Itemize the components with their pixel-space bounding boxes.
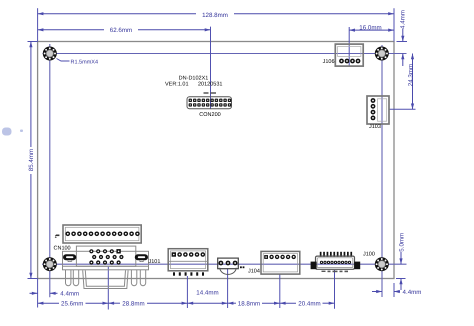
dimension 4.4mm bottom-right line — [372, 291, 382, 293]
svg-text:J100: J100 — [363, 251, 375, 257]
svg-text:CON200: CON200 — [199, 112, 220, 118]
centerline left vertical — [49, 44, 51, 297]
extension line top edge right tick — [397, 41, 408, 43]
svg-text:16.0mm: 16.0mm — [359, 24, 381, 31]
arrows 5.0mm — [399, 258, 402, 264]
svg-text:4.4mm: 4.4mm — [60, 290, 79, 297]
power jack 3-pin — [218, 258, 239, 274]
VGA D-shell — [83, 270, 128, 288]
extension line jack center bottom — [227, 269, 229, 308]
arrows 85.4mm — [29, 42, 32, 48]
connector CON200 — [187, 97, 232, 109]
dimension 4.4mm top-right line — [402, 29, 404, 42]
arrows 14.4mm — [187, 302, 193, 305]
extension line bottom edge right tick — [396, 278, 406, 280]
connector J106 — [335, 44, 363, 66]
dimension 18.8mm line — [228, 302, 236, 304]
dimension 28.8mm line — [108, 302, 120, 304]
extension line J106 center — [348, 27, 350, 66]
arrows 16.0mm — [349, 29, 355, 32]
dimension 128.8mm line — [38, 13, 196, 15]
extension line CON200 center — [210, 27, 212, 109]
dimension 25.6mm line — [38, 302, 59, 304]
dimension texts — [27, 10, 421, 307]
leader line R1.5mmX4 — [57, 59, 70, 62]
svg-text:VER:1.01: VER:1.01 — [165, 81, 189, 87]
J100 tiny marks — [322, 271, 349, 273]
centerline right vertical — [381, 45, 383, 297]
arrows 4.4mm top-right — [401, 36, 404, 42]
svg-text:18.8mm: 18.8mm — [238, 300, 260, 307]
svg-text:1: 1 — [55, 234, 58, 239]
svg-text:20.4mm: 20.4mm — [298, 300, 320, 307]
dimension 62.6mm line — [38, 29, 104, 31]
watermark smudge — [2, 128, 23, 136]
VGA screw legs right — [131, 270, 145, 286]
J101 legs — [173, 272, 204, 275]
arrows 20.4mm — [280, 302, 286, 305]
extension line bottom edge left tick — [28, 278, 38, 280]
connector J104 — [261, 251, 300, 274]
jack solder marks — [240, 266, 244, 268]
extension line board left edge bottom — [37, 279, 39, 308]
svg-text:4.4mm: 4.4mm — [403, 288, 422, 295]
pin1 mark CON200 — [204, 92, 217, 93]
VGA pins row2 — [92, 255, 123, 259]
mounting hole top-right — [375, 47, 389, 61]
extension line J100 center bottom — [334, 270, 336, 309]
dimension 20.4mm line — [280, 302, 296, 304]
svg-text:25.6mm: 25.6mm — [61, 300, 83, 307]
VGA pins row1 — [89, 249, 121, 253]
pin1 mark CN100 — [56, 235, 59, 237]
extension line J103 center right — [390, 108, 416, 110]
arrows 128.8mm — [38, 12, 44, 15]
dimension 4.4mm bottom-left line — [30, 292, 38, 294]
extension line J104 center bottom — [279, 275, 281, 309]
svg-text:CN100: CN100 — [54, 245, 71, 251]
arrows 25.6mm — [38, 302, 44, 305]
svg-text:J103: J103 — [369, 124, 381, 130]
arrows 62.6mm — [38, 28, 44, 31]
svg-text:4.4mm: 4.4mm — [399, 10, 406, 29]
extension line board right edge bottom — [393, 283, 395, 297]
VGA mounting oval right — [135, 254, 148, 261]
dimension 24.3mm line — [412, 54, 414, 110]
svg-text:85.4mm: 85.4mm — [27, 149, 34, 171]
dimension 16.0mm line — [349, 29, 394, 31]
mounting hole bottom-left — [43, 257, 57, 271]
connector CN100 pin header — [63, 225, 141, 243]
svg-text:5.0mm: 5.0mm — [398, 233, 405, 252]
svg-text:24.3mm: 24.3mm — [407, 64, 414, 86]
dimension 5.0mm line — [400, 252, 402, 264]
extension line VGA center bottom — [107, 266, 109, 310]
centerline bottom horizontal — [42, 263, 407, 265]
arrows 28.8mm — [108, 302, 114, 305]
connector J103 — [367, 96, 389, 124]
svg-text:128.8mm: 128.8mm — [202, 11, 228, 18]
svg-text:J101: J101 — [149, 259, 161, 265]
extension line board right edge top — [393, 8, 395, 41]
connector J100 — [311, 252, 361, 270]
mounting hole top-left — [43, 47, 57, 61]
svg-text:J106: J106 — [323, 59, 335, 65]
svg-text:28.8mm: 28.8mm — [122, 300, 144, 307]
dimension 14.4mm line — [187, 302, 227, 304]
connector CN100 D-sub VGA — [63, 246, 149, 270]
VGA pins row3 — [89, 260, 120, 264]
svg-text:14.4mm: 14.4mm — [196, 289, 218, 296]
svg-text:J104: J104 — [248, 268, 260, 274]
board outline — [38, 42, 394, 279]
VGA mounting oval left — [63, 254, 76, 261]
mounting hole bottom-right — [375, 257, 389, 271]
centerline top horizontal — [43, 53, 407, 55]
extension line top edge left tick — [28, 41, 38, 43]
VGA screw legs left — [66, 270, 79, 286]
arrows 24.3mm — [411, 54, 414, 60]
connector J101 — [168, 249, 208, 271]
arrows 18.8mm — [228, 302, 234, 305]
svg-text:62.6mm: 62.6mm — [110, 27, 132, 34]
arrows 4.4mm bottom-right — [376, 290, 382, 293]
extension line J101 center bottom — [186, 276, 188, 308]
svg-text:R1.5mmX4: R1.5mmX4 — [71, 59, 99, 65]
extension line board left edge top — [37, 8, 39, 41]
arrows 4.4mm bottom-left — [32, 292, 38, 295]
dimension 85.4mm line — [30, 42, 32, 148]
svg-text:DN-D102X1: DN-D102X1 — [179, 75, 209, 81]
svg-text:20120531: 20120531 — [198, 81, 222, 87]
